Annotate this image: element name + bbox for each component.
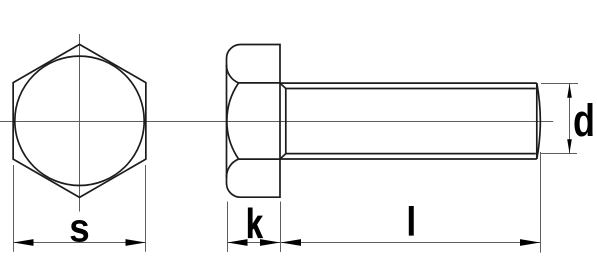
extension line k left [227, 202, 229, 253]
bottom facet chamfer arc [226, 159, 238, 177]
svg-text:s: s [69, 206, 89, 251]
hex head outline (front view) [13, 44, 146, 197]
dimension line d [569, 84, 571, 154]
dimension line k [227, 242, 280, 244]
arrowhead s right [126, 239, 146, 246]
arrowhead k left [227, 239, 247, 246]
shank end vertical line [536, 83, 538, 159]
extension line d top [541, 83, 578, 85]
top facet chamfer arc [226, 65, 238, 83]
vertical centerline of hex view [79, 34, 81, 212]
thread runout bottom diagonal [280, 154, 286, 159]
shank top line [280, 82, 537, 84]
bolt head outline (side view) [227, 45, 281, 198]
arrowhead d top [567, 84, 572, 98]
thread top line [286, 88, 536, 90]
shank end chamfer arc [537, 83, 541, 159]
arrowhead l left [281, 239, 301, 246]
svg-text:d: d [573, 95, 595, 146]
shank bottom line [280, 158, 537, 160]
bottom facet line of head [239, 158, 280, 160]
extension line d bottom [541, 153, 577, 155]
thread runout top diagonal [280, 83, 286, 88]
arrowhead l right [520, 239, 540, 246]
dimension line s [13, 242, 146, 244]
extension line s right [145, 165, 147, 252]
dimension line l [281, 242, 540, 244]
arrowhead d bottom [567, 139, 572, 153]
extension line s left [13, 165, 15, 252]
horizontal centerline [0, 121, 553, 123]
svg-text:l: l [406, 200, 416, 245]
chamfer circle on hex head [15, 56, 144, 185]
arrowhead k right [260, 239, 280, 246]
extension line l right [540, 152, 542, 253]
middle facet chamfer arc [227, 83, 239, 159]
extension line k right / l left [280, 202, 282, 253]
arrowhead s left [13, 239, 33, 246]
thread runout vertical line [285, 89, 287, 154]
top facet line of head [239, 82, 280, 84]
svg-text:k: k [246, 201, 263, 247]
thread bottom line [286, 153, 536, 155]
